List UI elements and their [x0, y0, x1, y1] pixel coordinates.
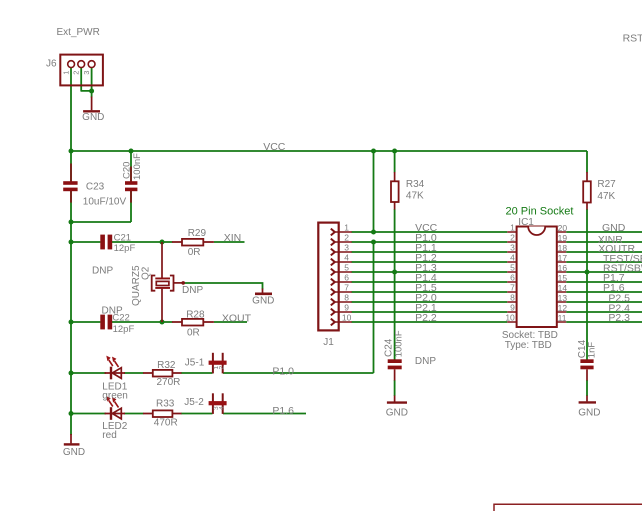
J5-2 pin numbers — [213, 406, 226, 410]
wire R33 to J5-2 — [181, 413, 213, 415]
svg-text:7: 7 — [344, 283, 349, 293]
svg-text:9: 9 — [510, 303, 515, 313]
node VCC-J6 junction — [69, 149, 74, 154]
svg-text:P1.0: P1.0 — [272, 366, 294, 378]
svg-text:R28: R28 — [186, 310, 205, 321]
svg-text:red: red — [102, 430, 116, 441]
svg-text:12pF: 12pF — [113, 324, 135, 335]
svg-text:DNP: DNP — [92, 265, 113, 276]
svg-text:10: 10 — [342, 313, 352, 323]
svg-text:0R: 0R — [188, 247, 201, 258]
wire LED1 to R32 — [124, 372, 144, 374]
svg-text:3: 3 — [82, 71, 91, 75]
wire J6 pin1 to VCC — [70, 68, 72, 152]
svg-text:2: 2 — [344, 233, 349, 243]
svg-text:12pF: 12pF — [114, 243, 136, 254]
svg-text:16: 16 — [558, 263, 568, 273]
svg-text:VCC: VCC — [263, 141, 286, 153]
resistor R34 — [391, 172, 399, 210]
svg-text:green: green — [102, 391, 128, 402]
wire P1.0 from J5-1 to corner — [223, 372, 374, 374]
wire R34 bottom to C24 — [394, 209, 396, 360]
J5-1 pin numbers — [213, 366, 226, 370]
svg-text:2: 2 — [219, 366, 226, 370]
wire LED1 row left — [71, 372, 106, 374]
wire trunk XOUT to LED1 — [70, 322, 72, 373]
frame box corner bottom right — [494, 504, 642, 511]
svg-text:20 Pin Socket: 20 Pin Socket — [506, 206, 574, 218]
capacitor C14 — [580, 359, 593, 401]
J1 pin numbers 1-10 — [342, 223, 352, 323]
wire R27 bottom to C14 — [586, 209, 588, 360]
resistor R29 — [172, 239, 214, 246]
wire LED2 row left — [71, 413, 106, 415]
svg-text:11: 11 — [558, 313, 567, 323]
svg-text:XOUT: XOUT — [222, 313, 252, 325]
node row5-R27 junction — [585, 270, 590, 275]
node trunk-LED1 junction — [69, 371, 74, 376]
svg-text:RST/SBWTDIO: RST/SBWTDIO — [623, 32, 642, 44]
svg-text:XIN: XIN — [224, 232, 242, 244]
resistor R27 — [583, 172, 591, 210]
svg-text:1: 1 — [344, 223, 349, 233]
node trunk-XIN junction — [69, 240, 74, 245]
ground under C14 — [579, 401, 596, 403]
J6 pin numbers 1 2 3 — [62, 71, 91, 75]
svg-text:5: 5 — [510, 263, 515, 273]
ground at crystal — [255, 289, 272, 294]
node J6 pins 2-3 junction — [89, 89, 94, 94]
LED2 — [105, 396, 126, 420]
wire crystal case to GND — [183, 283, 263, 290]
wire J6 junction to GND — [91, 91, 93, 98]
svg-text:18: 18 — [558, 243, 568, 253]
LED1 — [105, 356, 126, 380]
svg-text:2: 2 — [510, 233, 515, 243]
svg-text:20: 20 — [558, 223, 568, 233]
node XIN-crystal junction — [160, 240, 165, 245]
svg-text:470R: 470R — [154, 418, 178, 429]
wire VCC down to C23 — [70, 151, 72, 182]
svg-text:4: 4 — [344, 253, 349, 263]
ground under J6 — [83, 97, 100, 112]
wire VCC main horizontal — [71, 150, 587, 152]
wire J6 pin2 down and right — [81, 68, 92, 91]
node row5-R34 junction — [392, 270, 397, 275]
svg-text:7: 7 — [510, 283, 515, 293]
wire C22 to R28 — [112, 321, 173, 323]
svg-text:8: 8 — [344, 293, 349, 303]
svg-text:10: 10 — [505, 313, 515, 323]
svg-text:17: 17 — [558, 253, 568, 263]
wire bus rows J1 to IC1 — [352, 232, 508, 322]
crystal Q2 — [152, 242, 185, 322]
svg-text:GND: GND — [82, 112, 104, 123]
jumper J5-1 — [209, 353, 227, 374]
wire C14 to GND mid — [586, 380, 588, 396]
jumper J5-2 — [209, 393, 227, 414]
connector J1 — [318, 223, 352, 331]
svg-text:J6: J6 — [46, 59, 57, 70]
wire bus rows IC1 to right edge — [566, 232, 642, 322]
capacitor C22 — [100, 315, 112, 330]
wire VCC down to C20 — [130, 151, 132, 182]
ground bottom left — [64, 434, 80, 444]
svg-text:Type: TBD: Type: TBD — [505, 340, 552, 351]
svg-text:6: 6 — [510, 273, 515, 283]
svg-text:R33: R33 — [156, 398, 175, 409]
IC1 socket — [507, 227, 566, 328]
svg-text:R27: R27 — [597, 179, 616, 190]
svg-text:Ext_PWR: Ext_PWR — [57, 27, 100, 38]
svg-text:4: 4 — [219, 406, 226, 410]
IC1 left pin numbers 1-10 — [505, 223, 515, 323]
svg-text:19: 19 — [558, 233, 568, 243]
wire trunk LED1 to LED2 — [70, 373, 72, 414]
svg-text:15: 15 — [558, 273, 568, 283]
svg-text:47K: 47K — [406, 190, 424, 201]
node trunk-LED2 junction — [69, 411, 74, 416]
svg-text:P1.6: P1.6 — [272, 405, 294, 417]
svg-text:5: 5 — [344, 263, 349, 273]
wire R29 to XIN end — [214, 241, 245, 243]
node VCC-C20 junction — [129, 149, 134, 154]
svg-text:270R: 270R — [157, 377, 181, 388]
node VCC-R34 junction — [392, 149, 397, 154]
svg-text:6: 6 — [344, 273, 349, 283]
svg-text:P2.3: P2.3 — [608, 312, 630, 324]
wire R28 to XOUT end — [214, 321, 247, 323]
node XOUT-crystal junction — [160, 320, 165, 325]
capacitor C23 — [63, 164, 77, 203]
wire VCC to R34 — [394, 151, 396, 173]
wire C24 to GND mid — [394, 380, 396, 396]
svg-text:2: 2 — [72, 71, 81, 75]
IC1 right pin numbers 20-11 — [558, 223, 568, 323]
svg-text:100nF: 100nF — [393, 330, 404, 357]
svg-text:GND: GND — [63, 447, 85, 458]
svg-text:DNP: DNP — [182, 285, 203, 296]
capacitor C21 — [100, 235, 112, 250]
svg-text:C22: C22 — [112, 312, 129, 323]
svg-text:3: 3 — [510, 243, 515, 253]
svg-text:GND: GND — [578, 408, 600, 419]
svg-text:13: 13 — [558, 293, 568, 303]
wire P1.6 from J5-2 — [223, 413, 306, 415]
svg-text:GND: GND — [386, 407, 408, 418]
svg-text:J5-2: J5-2 — [184, 397, 204, 408]
svg-text:8: 8 — [510, 293, 515, 303]
capacitor C20 — [125, 167, 137, 203]
resistor R32 — [143, 370, 182, 377]
node VCC-row1 junction — [371, 149, 376, 154]
svg-text:12: 12 — [558, 303, 568, 313]
svg-text:14: 14 — [558, 283, 568, 293]
node row2-P1.0 junction — [371, 240, 376, 245]
wire VCC to row1 — [373, 151, 375, 232]
svg-text:GND: GND — [252, 295, 274, 306]
ground under C24 — [387, 401, 407, 403]
connector J6 — [60, 55, 103, 86]
svg-text:C23: C23 — [86, 182, 105, 193]
svg-text:100nF: 100nF — [132, 153, 143, 180]
svg-text:DNP: DNP — [415, 356, 436, 367]
wire XOUT row left of C22 — [71, 321, 100, 323]
svg-text:R34: R34 — [406, 179, 425, 190]
svg-text:J5-1: J5-1 — [185, 358, 205, 369]
svg-text:J1: J1 — [323, 337, 334, 348]
node C23-C20 junction — [69, 220, 74, 225]
wire R32 to J5-1 — [181, 372, 213, 374]
svg-text:R32: R32 — [157, 360, 176, 371]
wire C20 bottom to trunk — [71, 221, 131, 223]
svg-text:9: 9 — [344, 303, 349, 313]
svg-text:4: 4 — [510, 253, 515, 263]
svg-text:47K: 47K — [597, 191, 615, 202]
bus net labels left — [415, 222, 438, 324]
wire C21 to R29 — [112, 241, 173, 243]
svg-text:R29: R29 — [188, 228, 207, 239]
node row1 junction — [371, 230, 376, 235]
svg-text:3: 3 — [344, 243, 349, 253]
svg-text:C20: C20 — [121, 162, 132, 179]
wire XIN row left of C21 — [71, 241, 100, 243]
resistor R33 — [143, 410, 182, 417]
wire P1.0 vertical up to row2 — [373, 242, 375, 373]
wire LED2 to R33 — [124, 413, 144, 415]
svg-text:0R: 0R — [187, 328, 200, 339]
capacitor C24 — [388, 359, 402, 401]
wire J6 pin3 down — [91, 68, 93, 92]
wire trunk XIN to XOUT — [70, 242, 72, 322]
svg-text:1: 1 — [62, 71, 71, 75]
wire C23 bottom to XIN row — [70, 191, 72, 242]
svg-text:P2.2: P2.2 — [415, 312, 437, 324]
svg-text:C21: C21 — [114, 232, 131, 243]
resistor R28 — [172, 319, 214, 326]
svg-text:1: 1 — [510, 223, 515, 233]
svg-text:IC1: IC1 — [518, 217, 534, 228]
svg-text:1nF: 1nF — [587, 342, 598, 359]
wire trunk LED2 to GND — [70, 414, 72, 436]
svg-text:10uF/10V: 10uF/10V — [83, 197, 127, 208]
svg-text:GND: GND — [602, 222, 626, 234]
wire VCC down to R27 — [586, 151, 588, 173]
node trunk-XOUT junction — [69, 320, 74, 325]
wire C20 bottom down — [130, 191, 132, 222]
svg-text:Q2: Q2 — [140, 266, 151, 280]
right side net labels — [598, 222, 642, 324]
